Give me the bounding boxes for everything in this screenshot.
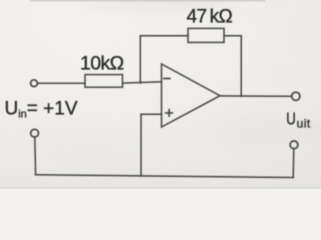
wire input terminal to R1 <box>38 82 85 84</box>
wire feedback top left segment <box>140 35 188 37</box>
wire feedback left vertical <box>139 36 141 83</box>
wire feedback top right segment <box>224 35 241 37</box>
wire non-inverting input <box>141 113 162 115</box>
node B output junction <box>240 95 242 97</box>
op-amp inverting pin marker (-) <box>164 78 170 80</box>
wire op-amp output <box>220 95 291 97</box>
resistor R1 10kΩ <box>85 75 123 88</box>
wire lower-right terminal to bottom rail <box>292 149 295 178</box>
resistor R2 47kΩ <box>188 28 224 42</box>
node A inverting input junction <box>139 82 141 84</box>
terminal J4 lower right (0V) <box>290 141 298 149</box>
svg-text:U: U <box>286 110 296 129</box>
svg-text:Uin= +1V: Uin= +1V <box>5 98 78 120</box>
op-amp non-inverting pin marker (+) <box>166 110 173 117</box>
terminal J3 lower left (0V) <box>31 129 39 137</box>
wire lower-left terminal to bottom rail <box>34 137 37 174</box>
svg-text:10kΩ: 10kΩ <box>80 52 124 74</box>
wire bottom rail right segment <box>141 176 293 178</box>
wire bottom rail left segment <box>36 175 141 176</box>
terminal J1 input (+) <box>31 80 38 87</box>
wire feedback right vertical <box>240 36 242 96</box>
svg-text:47 kΩ: 47 kΩ <box>187 7 233 28</box>
terminal J2 output <box>292 92 300 100</box>
svg-text:uit: uit <box>297 117 311 131</box>
op-amp U1 <box>162 64 221 127</box>
label Uuit <box>286 110 311 131</box>
wire R1 to inverting input <box>123 82 162 83</box>
wire non-inverting input to bottom rail <box>140 114 142 176</box>
